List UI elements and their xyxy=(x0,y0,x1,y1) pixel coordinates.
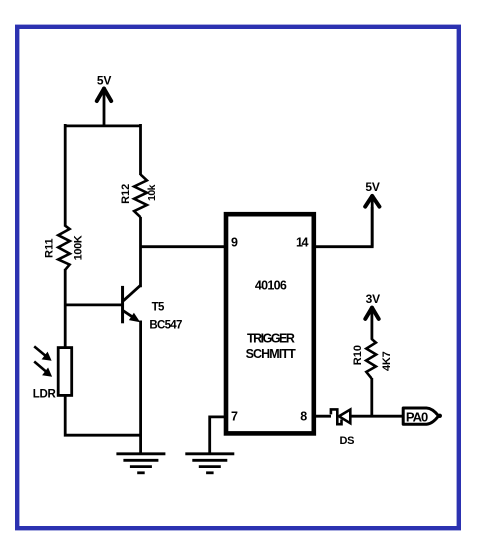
wire pin7 to ground xyxy=(210,417,225,453)
resistor R11 xyxy=(58,226,70,270)
svg-text:TRIGGER: TRIGGER xyxy=(247,332,295,346)
svg-text:R10: R10 xyxy=(352,345,364,365)
svg-text:R12: R12 xyxy=(120,184,132,204)
svg-text:4K7: 4K7 xyxy=(381,351,393,371)
wire pin8 to diode xyxy=(314,415,331,418)
wire 3V stem xyxy=(370,308,373,340)
wire left branch upper xyxy=(64,124,67,227)
svg-text:BC547: BC547 xyxy=(149,320,182,332)
IC U1 40106 box xyxy=(226,214,314,433)
svg-text:R11: R11 xyxy=(44,238,56,258)
wire emitter to ground xyxy=(139,321,142,453)
transistor T5 collector diagonal xyxy=(123,285,141,301)
wire pin9 xyxy=(141,245,226,248)
wire base xyxy=(65,303,121,306)
resistor R10 xyxy=(366,339,376,379)
svg-text:3V: 3V xyxy=(366,292,380,306)
svg-text:40106: 40106 xyxy=(255,279,287,293)
wire 5V right stem xyxy=(371,196,374,247)
svg-text:DS: DS xyxy=(340,435,355,447)
svg-text:14: 14 xyxy=(296,235,308,249)
svg-text:T5: T5 xyxy=(152,302,165,314)
wire right branch upper xyxy=(139,124,142,175)
LDR light arrow 1 xyxy=(34,346,51,360)
connector PA0 xyxy=(403,408,442,424)
wire left branch lower xyxy=(65,395,140,435)
svg-text:LDR: LDR xyxy=(33,388,57,400)
svg-text:PA0: PA0 xyxy=(406,409,428,424)
diode DS cathode bar (schottky) xyxy=(331,409,342,424)
wire pin14 to 5V xyxy=(313,207,372,247)
supply 5V right arrow xyxy=(365,196,379,207)
wire diode to PA0 xyxy=(350,415,403,418)
svg-text:7: 7 xyxy=(231,409,238,423)
wire 5V left stem xyxy=(103,88,106,127)
svg-text:SCHMITT: SCHMITT xyxy=(246,347,297,361)
wire left branch middle xyxy=(64,269,67,347)
svg-text:5V: 5V xyxy=(97,73,111,87)
svg-text:8: 8 xyxy=(300,409,307,423)
svg-text:5V: 5V xyxy=(365,180,379,194)
ground right xyxy=(185,454,234,473)
supply 3V arrow xyxy=(365,308,378,319)
ground left xyxy=(116,454,165,473)
diode DS triangle xyxy=(339,410,350,424)
svg-text:100K: 100K xyxy=(73,235,85,260)
LDR body xyxy=(58,348,71,396)
svg-text:9: 9 xyxy=(231,235,238,249)
transistor T5 base bar xyxy=(121,286,124,323)
wire top rail xyxy=(65,125,140,128)
LDR light arrow 2 xyxy=(34,362,52,377)
wire collector branch xyxy=(139,217,142,287)
supply 5V left arrow xyxy=(97,89,111,101)
transistor T5 emitter diagonal xyxy=(123,311,140,323)
wire R10 junction xyxy=(370,378,373,416)
svg-text:10k: 10k xyxy=(146,184,158,201)
resistor R12 xyxy=(134,174,147,217)
